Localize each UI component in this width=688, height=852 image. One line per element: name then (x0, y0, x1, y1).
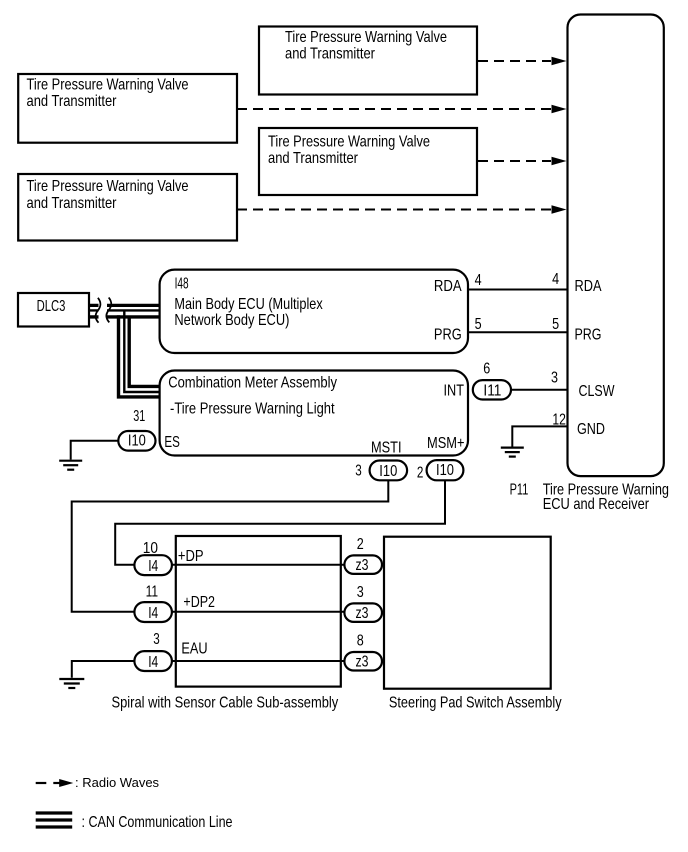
svg-text:RDA: RDA (434, 278, 462, 295)
svg-text:4: 4 (475, 272, 482, 289)
svg-text:EAU: EAU (181, 641, 207, 658)
connector I4 (+DP pin 10) (134, 540, 172, 575)
radio wave dashed arrow 1 (478, 57, 567, 66)
svg-text:3: 3 (551, 370, 558, 387)
wire +DP2 row (172, 611, 345, 613)
connector z3 (pin 8) (344, 633, 382, 671)
svg-text:3: 3 (357, 584, 364, 601)
wire GND (P11 pin 12 to ground) (512, 411, 568, 446)
connector I4 (EAU pin 3) (134, 631, 172, 671)
connector I10 (ES pin 31) (118, 408, 155, 450)
svg-text:Steering Pad Switch Assembly: Steering Pad Switch Assembly (389, 695, 562, 712)
legend: CAN communication line symbol (36, 813, 233, 831)
svg-text:8: 8 (357, 633, 364, 650)
svg-text:I4: I4 (148, 558, 158, 575)
svg-text:: Radio Waves: : Radio Waves (75, 775, 160, 790)
svg-text:and Transmitter: and Transmitter (27, 195, 118, 212)
svg-text:RDA: RDA (575, 278, 602, 295)
wire PRG (I48 pin 5 to P11 pin 5) (468, 316, 568, 333)
wire EAU row (172, 660, 345, 662)
svg-text:I11: I11 (483, 383, 501, 400)
box: tire pressure warning valve and transmitter (upper left) (18, 74, 237, 143)
svg-text:+DP: +DP (178, 548, 204, 565)
svg-text:Tire Pressure Warning Valve: Tire Pressure Warning Valve (268, 134, 430, 151)
svg-text:: CAN Communication Line: : CAN Communication Line (82, 814, 233, 831)
wire +DP row (172, 564, 345, 566)
svg-text:Tire Pressure Warning Valve: Tire Pressure Warning Valve (27, 178, 189, 195)
connector I11 (INT pin 6 to CLSW pin 3) (473, 361, 511, 400)
svg-text:-Tire Pressure Warning Light: -Tire Pressure Warning Light (170, 401, 335, 418)
connector I10 (MSTI pin 3) (355, 461, 407, 481)
svg-text:z3: z3 (356, 653, 369, 670)
svg-text:P11: P11 (510, 482, 529, 499)
box: spiral with sensor cable sub-assembly (176, 536, 341, 687)
svg-text:10: 10 (143, 540, 158, 557)
svg-text:and Transmitter: and Transmitter (27, 93, 118, 110)
svg-text:Tire Pressure Warning Valve: Tire Pressure Warning Valve (285, 29, 447, 46)
wire MSTI to I4 +DP2 (72, 481, 389, 612)
svg-text:PRG: PRG (434, 327, 462, 344)
cable break squiggle 1 (96, 298, 101, 323)
CAN bus branch strands down to combination meter (119, 311, 160, 397)
CAN bus horizontal strands DLC3 to I48 (90, 305, 160, 317)
connector z3 (pin 3) (344, 584, 382, 622)
svg-text:3: 3 (355, 463, 362, 480)
svg-text:+DP2: +DP2 (183, 594, 215, 611)
svg-text:31: 31 (133, 408, 145, 425)
radio wave dashed arrow 4 (237, 205, 567, 214)
svg-text:I10: I10 (436, 462, 454, 479)
svg-text:GND: GND (577, 421, 605, 438)
svg-text:I4: I4 (148, 605, 158, 622)
svg-text:12: 12 (552, 411, 566, 428)
svg-text:Main Body ECU (Multiplex: Main Body ECU (Multiplex (174, 296, 322, 313)
connector I10 (MSM+ pin 2) (417, 460, 464, 482)
svg-text:MSTI: MSTI (371, 439, 402, 456)
svg-text:I4: I4 (148, 654, 158, 671)
box: tire pressure warning valve and transmitter (lower left) (18, 174, 237, 241)
ground (EAU) (59, 679, 84, 688)
svg-text:MSM+: MSM+ (427, 435, 465, 452)
svg-text:5: 5 (552, 316, 559, 333)
svg-text:I10: I10 (128, 433, 146, 450)
svg-text:Combination Meter Assembly: Combination Meter Assembly (168, 375, 337, 392)
wire MSM+ to I4 +DP (115, 481, 445, 565)
svg-text:z3: z3 (356, 605, 369, 622)
cable break squiggle 2 (106, 298, 111, 323)
svg-text:ES: ES (164, 434, 180, 451)
svg-text:DLC3: DLC3 (37, 298, 66, 315)
svg-text:Spiral with Sensor Cable Sub-a: Spiral with Sensor Cable Sub-assembly (112, 695, 339, 712)
connector z3 (pin 2) (344, 536, 382, 574)
svg-text:Network Body ECU): Network Body ECU) (174, 312, 289, 329)
svg-text:5: 5 (475, 316, 482, 333)
svg-text:3: 3 (153, 631, 160, 648)
connector DLC3 (18, 293, 89, 327)
label P11 caption (510, 482, 669, 514)
radio wave dashed arrow 2 (237, 105, 567, 114)
box: tire pressure warning valve and transmitter (top right) (259, 27, 477, 95)
legend: radio waves symbol (36, 775, 160, 790)
radio wave dashed arrow 3 (478, 157, 567, 166)
box: steering pad switch assembly (384, 537, 551, 689)
svg-text:4: 4 (552, 271, 559, 288)
ECU I48: main body ECU (rounded box) (160, 270, 468, 353)
svg-text:2: 2 (357, 536, 364, 553)
wire CLSW (I11 to P11 pin 3) (511, 370, 568, 390)
svg-text:ECU and Receiver: ECU and Receiver (543, 496, 650, 513)
svg-text:and Transmitter: and Transmitter (285, 46, 376, 63)
svg-text:INT: INT (444, 383, 465, 400)
svg-text:6: 6 (483, 361, 490, 378)
svg-text:and Transmitter: and Transmitter (268, 150, 359, 167)
ground (ES) (59, 461, 82, 470)
svg-text:CLSW: CLSW (579, 383, 616, 400)
wire EAU to ground (72, 661, 135, 678)
wire RDA (I48 pin 4 to P11 pin 4) (468, 271, 568, 290)
svg-text:I48: I48 (175, 276, 189, 293)
svg-text:I10: I10 (379, 463, 397, 480)
connector I4 (+DP2 pin 11) (134, 583, 172, 622)
ground (P11 GND) (501, 448, 524, 457)
svg-text:2: 2 (417, 465, 424, 482)
svg-text:PRG: PRG (575, 327, 602, 344)
ECU: combination meter assembly (rounded box) (160, 371, 468, 457)
box: tire pressure warning valve and transmitter (middle right) (259, 128, 477, 195)
svg-text:Tire Pressure Warning Valve: Tire Pressure Warning Valve (27, 77, 189, 94)
svg-text:11: 11 (146, 583, 159, 600)
ECU P11: tire pressure warning ECU and receiver (rounded box) (568, 15, 664, 477)
wire ES to ground (71, 441, 119, 460)
svg-text:z3: z3 (356, 557, 369, 574)
